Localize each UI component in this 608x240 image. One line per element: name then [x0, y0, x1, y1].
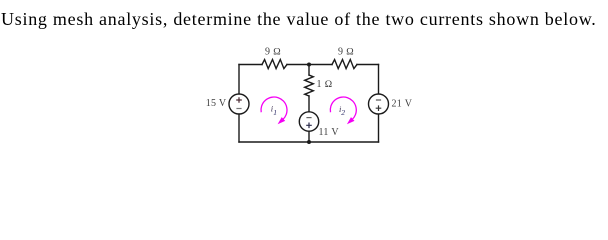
svg-text:15 V: 15 V — [206, 98, 227, 109]
svg-text:1: 1 — [273, 108, 277, 117]
svg-text:1 Ω: 1 Ω — [317, 79, 333, 90]
svg-text:9 Ω: 9 Ω — [265, 47, 281, 58]
svg-text:21 V: 21 V — [392, 99, 413, 110]
svg-text:2: 2 — [341, 108, 345, 117]
svg-text:9 Ω: 9 Ω — [338, 47, 354, 58]
svg-text:11 V: 11 V — [319, 127, 340, 138]
